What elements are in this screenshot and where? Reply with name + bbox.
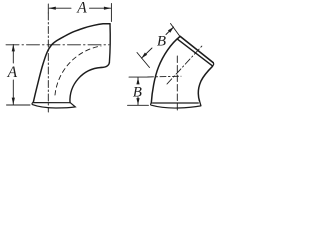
dimension B diag: lower tick [137, 53, 150, 68]
elbow E2 top face upper edge [180, 36, 213, 62]
elbow E1 right end face [108, 24, 111, 63]
dimension B diag: line upper part [166, 27, 174, 35]
svg-text:A: A [76, 0, 87, 17]
dimension A left: line lower part [12, 80, 14, 104]
dimension B diag: upper tick (face plane extension) [171, 24, 181, 37]
dimension A top: line right part [90, 7, 111, 9]
dimension B left: bottom tick [128, 104, 149, 106]
dimension A left: line upper part [12, 45, 14, 64]
arrowhead B-left down [136, 98, 139, 105]
arrowhead B-left up [136, 78, 139, 85]
svg-text:B: B [133, 84, 142, 100]
vertical centerline of bottom port [47, 13, 49, 112]
dimension A left: bottom extension tick [7, 104, 31, 106]
dimension A top: right extension tick [110, 4, 112, 22]
dimension A top: line left part [49, 7, 71, 9]
dimension B diag: line lower part [142, 48, 153, 58]
arrowhead B-diag lower [141, 53, 147, 59]
arrowhead B-diag upper [168, 27, 174, 33]
arrowhead top-right [104, 7, 111, 10]
elbow E1 inner arc [70, 68, 101, 103]
horizontal center reference dash-dot to cross [148, 75, 182, 78]
diagonal 45-deg axis centerline E2 [167, 44, 204, 84]
dimension A top: left extension tick [47, 4, 49, 13]
elbow E1 bottom face lower ellipse edge [32, 102, 75, 108]
elbow E2 top face left tip [178, 37, 180, 40]
elbow E2 top face right tip [213, 63, 214, 66]
arrowhead top-left [49, 7, 56, 10]
elbow E2 left outer silhouette arc [151, 37, 180, 104]
svg-text:A: A [7, 64, 18, 81]
elbow E2 right bottom bevel [199, 101, 201, 106]
dimension B left: line lower part [137, 97, 139, 105]
elbow E2 top face lower edge [178, 40, 213, 66]
phantom bend centerline arc (dashed) [55, 46, 101, 95]
elbow E2 right silhouette [198, 66, 212, 100]
vertical centerline of bottom port E2 [176, 56, 178, 111]
elbow E1 outer arc [33, 24, 110, 102]
elbow E1 bottom face top edge [33, 102, 70, 104]
dimension B left: top tick [129, 76, 147, 78]
elbow E1 inner corner at face bottom [101, 63, 109, 68]
horizontal centerline of right port [6, 44, 109, 46]
svg-text:B: B [157, 33, 166, 49]
arrowhead left-up [12, 44, 15, 51]
elbow E2 bottom face top edge [153, 102, 199, 104]
dimension B left: line upper part [137, 78, 139, 84]
arrowhead left-down [12, 98, 15, 105]
elbow E2 bottom face lower ellipse edge [151, 103, 201, 108]
